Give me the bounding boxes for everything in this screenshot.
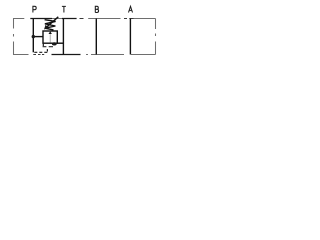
adjustment arrow shaft (47, 17, 59, 27)
label A (129, 6, 133, 12)
port line A (129, 19, 131, 55)
flow arrow stem (49, 34, 51, 42)
label P (33, 6, 36, 12)
valve outlet wire to T (57, 42, 63, 44)
sandwich plate enclosure right edge (dash-dot) (155, 19, 157, 55)
valve inlet wire from P to valve (33, 36, 43, 38)
label T (62, 6, 66, 12)
junction blob at valve outlet (52, 42, 57, 45)
top edge black run P to valve (30, 18, 52, 20)
spring (45, 20, 56, 30)
sandwich plate enclosure left edge (dash-dot) (13, 19, 15, 55)
pilot line horizontal dashes (34, 51, 47, 53)
orifice strokes (43, 46, 53, 48)
pilot line vertical dashes (43, 44, 47, 52)
sandwich plate enclosure top edge (light) (13, 18, 156, 20)
port line T (62, 19, 64, 55)
bottom edge black run under T (52, 54, 81, 56)
label B (95, 6, 98, 12)
bottom edge dark dashes near pilot (33, 54, 44, 56)
junction dot on P line (32, 35, 35, 38)
adjustment arrow head (44, 25, 48, 30)
top edge dark dash segments (80, 18, 134, 20)
port line P (32, 19, 34, 53)
port line B (95, 19, 97, 55)
top edge black run T region (62, 18, 77, 20)
flow arrow head (49, 31, 52, 34)
sandwich plate enclosure bottom edge (light) (13, 54, 156, 56)
valve body square (43, 31, 57, 43)
